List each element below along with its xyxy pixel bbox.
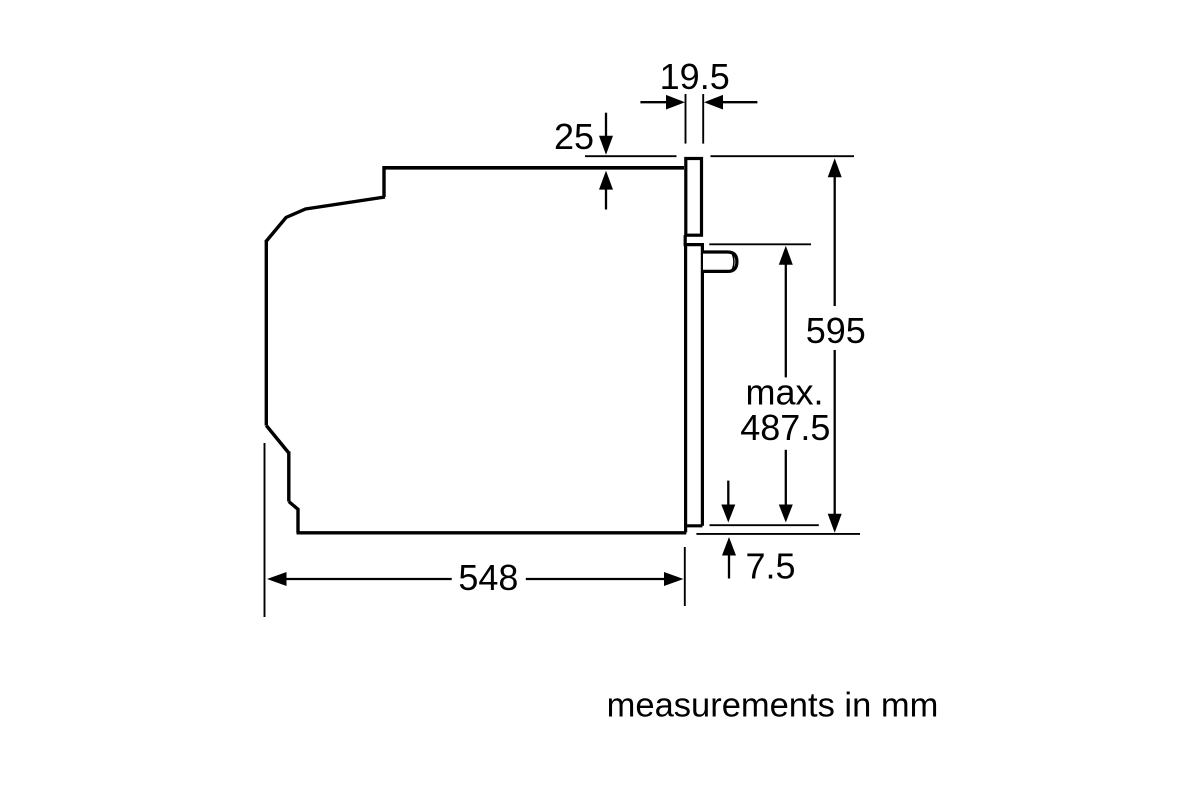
- svg-text:548: 548: [458, 557, 518, 598]
- arrowhead 7.5 pointing up: [722, 537, 736, 556]
- arrowhead 25 pointing up: [599, 171, 613, 190]
- ref line: oven bottom level: [696, 533, 860, 535]
- lower left vertical: [287, 452, 290, 502]
- oven top line: [384, 166, 684, 170]
- arrowhead 595 bottom pointing down: [828, 514, 842, 533]
- door rear vertical: [701, 245, 704, 526]
- bottom line: [297, 531, 687, 534]
- dim line 487.5 upper: [785, 264, 787, 378]
- ext line 548 right: [684, 547, 686, 606]
- ref line: top of frame (right of panel): [711, 155, 855, 157]
- arrowhead 19.5 pointing right: [666, 95, 685, 110]
- door front vertical: [684, 245, 687, 533]
- ext line 19.5 right: [702, 94, 704, 144]
- svg-text:595: 595: [806, 310, 866, 351]
- ref line: door bottom level: [710, 524, 819, 526]
- arrowhead 548 pointing left: [267, 572, 287, 586]
- arrowhead 487.5 bottom pointing down: [779, 505, 793, 523]
- dim line 487.5 lower: [785, 450, 787, 506]
- neck below panel: [684, 235, 687, 244]
- foot jog: [289, 502, 298, 533]
- svg-text:25: 25: [554, 116, 594, 157]
- dim line 595 lower: [834, 350, 836, 515]
- front frame panel: [686, 159, 702, 236]
- dim line 548 left segment: [285, 578, 452, 580]
- dim 25 lower shaft: [605, 189, 607, 210]
- ref line: door top ledge level: [709, 243, 811, 245]
- arrowhead 7.5 pointing down: [721, 505, 735, 523]
- arrowhead 548 pointing right: [664, 572, 684, 586]
- arrowhead 19.5 pointing left: [704, 95, 723, 110]
- arrowhead 487.5 top pointing up: [779, 246, 793, 265]
- svg-text:measurements in mm: measurements in mm: [607, 687, 939, 725]
- control knob: [703, 252, 737, 271]
- top-left step: [382, 166, 385, 197]
- dim line 19.5 right segment: [722, 101, 757, 103]
- left lower chamfer: [266, 426, 289, 454]
- svg-text:487.5: 487.5: [740, 407, 830, 448]
- ext line 19.5 left: [685, 94, 687, 144]
- arrowhead 25 pointing down: [599, 136, 613, 155]
- dim 25 upper shaft: [605, 113, 607, 137]
- dim line 19.5 left segment: [640, 101, 667, 103]
- door bottom: [684, 524, 702, 527]
- dim line 595 upper: [834, 176, 836, 306]
- dim line 548 right segment: [526, 578, 665, 580]
- dim 7.5 upper shaft: [727, 481, 729, 505]
- left side vertical: [265, 240, 268, 426]
- ledge at door top: [684, 243, 704, 246]
- svg-text:19.5: 19.5: [660, 56, 730, 97]
- knob end arc: [732, 254, 734, 270]
- ext line 548 left: [264, 443, 266, 617]
- dim 7.5 lower shaft: [728, 553, 730, 579]
- arrowhead 595 top pointing up: [828, 158, 842, 177]
- svg-text:7.5: 7.5: [745, 546, 795, 587]
- ref line: top of frame (left of panel): [585, 155, 677, 157]
- top-left sloped edge: [266, 197, 385, 242]
